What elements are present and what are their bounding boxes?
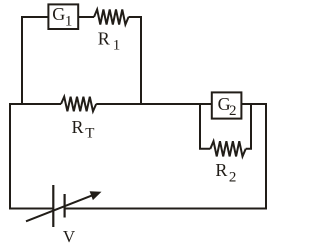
variable-source arrowhead (90, 191, 102, 200)
svg-text:R: R (98, 29, 110, 49)
svg-text:R: R (215, 160, 227, 180)
wire middle left segment (10, 104, 61, 209)
resistor RT (61, 97, 96, 112)
wire top-left corner: G1 left lead, down to middle wire (22, 17, 49, 104)
resistor R2 (210, 141, 245, 156)
wire top-right corner: R1 lead, down to middle wire (129, 17, 142, 104)
svg-text:R: R (72, 117, 84, 137)
svg-text:2: 2 (229, 103, 237, 119)
svg-text:T: T (85, 126, 94, 142)
wire R2 branch right vertical (246, 103, 251, 149)
svg-text:V: V (63, 227, 76, 246)
variable-source arrow shaft (26, 195, 93, 221)
battery plate short (63, 194, 65, 218)
galvanometer box G1 (48, 4, 78, 29)
resistor R1 (94, 10, 129, 25)
galvanometer box G2 (212, 92, 242, 118)
wire R2 branch left vertical (200, 103, 210, 149)
wire middle right segment to G2 (96, 103, 212, 105)
svg-text:1: 1 (65, 14, 73, 30)
wire G2 to right corner, down and along bottom to battery (66, 104, 267, 209)
svg-text:2: 2 (229, 170, 237, 186)
svg-text:G: G (52, 4, 65, 24)
svg-text:1: 1 (113, 38, 121, 54)
wire G1 to R1 (78, 16, 95, 18)
battery plate long (52, 185, 54, 227)
